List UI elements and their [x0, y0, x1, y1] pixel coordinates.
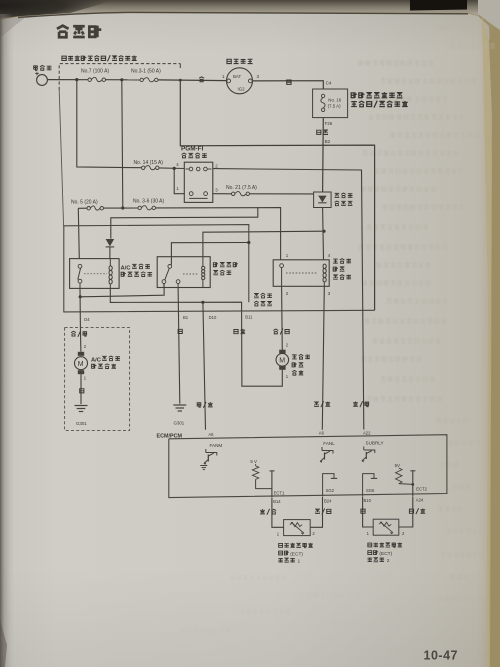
fuse No.21 (7.5A)	[232, 192, 250, 196]
pull-up resistor ECT2	[396, 468, 413, 484]
label: fan control relay	[213, 262, 238, 275]
label: radiator fan motor	[292, 354, 310, 375]
svg-text:ECM/PCM: ECM/PCM	[157, 433, 183, 439]
svg-text:G301: G301	[174, 421, 185, 426]
pin A6 (FANL)	[319, 430, 335, 446]
pull-up resistor ECT1	[252, 464, 272, 489]
page top edge line	[18, 12, 468, 17]
label: ignition switch	[227, 59, 253, 64]
svg-text:SG6: SG6	[366, 488, 375, 493]
wire: ignition IG2 to C4	[252, 81, 323, 89]
wire label: black (hei) sensor2	[361, 509, 365, 513]
svg-text:3: 3	[257, 74, 260, 79]
svg-text:IG2: IG2	[238, 87, 246, 92]
fuse No.3-1 (50A)	[140, 78, 158, 82]
ignition switch	[222, 68, 260, 94]
junction on battery bus (feeds No.14 fuse)	[75, 78, 78, 81]
wire: rail branch to diode feed (A/C relay coil)	[111, 208, 258, 239]
label: PGM-FI sub relay	[181, 146, 207, 159]
wire label: red/white (hong/bai)	[260, 509, 276, 515]
wire: fuse16 down to B2 (light green)	[322, 118, 325, 192]
wire label: green/black (lv/hei)	[315, 508, 331, 514]
svg-text:A6: A6	[208, 432, 214, 437]
svg-text:10-47: 10-47	[424, 649, 458, 663]
under-hood fuse/relay box (dashed outline)	[59, 64, 180, 90]
bleed-through text (back of page)	[359, 60, 480, 401]
wire label: pink (fenhong)	[234, 329, 245, 334]
fan control relay	[157, 257, 210, 288]
schematic (slight scan skew)	[34, 55, 447, 564]
wire: radiator relay pin3 down through FANL	[322, 286, 324, 430]
svg-text:F26: F26	[325, 121, 333, 126]
label: ECT sensor 2	[368, 542, 402, 564]
junction A/C motor feed	[79, 295, 82, 298]
junction coil bus	[201, 301, 204, 304]
svg-text:No.7 (100 A): No.7 (100 A)	[81, 68, 109, 74]
svg-text:(7.5 A): (7.5 A)	[328, 104, 341, 109]
wire: PGM-FI pin3 through fuse No.21 to relay board diode	[213, 193, 232, 195]
dash fuse/relay box No.16	[313, 89, 348, 118]
wire: A/C coil bottom to coil bus	[110, 288, 241, 311]
junction ECT2 node	[411, 483, 414, 486]
svg-text:B24: B24	[324, 499, 332, 504]
wire: battery branch down and across to right rail	[180, 80, 374, 310]
svg-text:B14: B14	[273, 499, 281, 504]
label: driver side dash fuse/relay box	[351, 92, 407, 107]
radiator fan relay	[273, 260, 329, 287]
wire: coil bus down through D10	[203, 302, 206, 430]
svg-text:5V: 5V	[395, 463, 400, 468]
pin A6 (FANM)	[208, 432, 222, 448]
wire label: red/yellow (hong/huang)	[353, 401, 368, 407]
wire label: orange (cheng)	[287, 80, 291, 84]
wire: B10 loop to sensor 2	[363, 497, 374, 527]
label: ECT sensor 1	[278, 543, 312, 565]
left edge shadow	[0, 14, 14, 667]
svg-text:No. 3-6 (30 A): No. 3-6 (30 A)	[133, 199, 164, 205]
pin SG6/B10	[364, 488, 376, 503]
ECT2 input node	[410, 471, 415, 496]
radiator fan motor	[276, 342, 289, 378]
svg-text:No. 16: No. 16	[328, 98, 341, 103]
A/C condenser fan motor housing (dashed)	[65, 327, 130, 430]
wire: diode box down to junction and radiator relay pin 4	[322, 208, 325, 260]
svg-text:B11: B11	[245, 314, 253, 319]
wire: junction right to fan control throw	[80, 284, 164, 297]
ECT1 input node	[270, 471, 275, 497]
pin ECT1/B14	[273, 491, 285, 504]
junction: fan control common tap	[247, 241, 250, 244]
label: battery	[34, 65, 52, 70]
fuse No.5 (20A)	[87, 206, 104, 210]
sensor ground SG6 hook	[363, 474, 378, 497]
svg-text:B2: B2	[325, 139, 331, 144]
wire label: yellow/red (huang/hong)	[197, 402, 213, 408]
fuse No.3-6 (30A)	[138, 206, 156, 210]
wire: sensor 1 to SG2	[310, 497, 322, 527]
A/C condenser fan motor	[75, 327, 88, 404]
label: radiator fan relay	[333, 259, 351, 280]
fuse No.14 (15A)	[142, 166, 160, 170]
junction after fuse No.3-1 (feeds C4 branch)	[179, 79, 182, 82]
junction on battery bus after No.7 (feeds No.5/No.3-6)	[120, 78, 123, 81]
wire: sensor 2 to ECT2	[399, 496, 413, 527]
svg-text:C4: C4	[326, 80, 332, 85]
label: A/C condenser fan relay	[121, 264, 153, 277]
label: A/C condenser fan motor	[91, 356, 120, 368]
svg-text:SG2: SG2	[326, 488, 335, 493]
svg-text:D10: D10	[209, 315, 217, 320]
wire: No.5 fuse branch down to A/C relay contact	[78, 208, 79, 258]
svg-text:ECT2: ECT2	[416, 487, 427, 492]
wire label: black/red (hei/hong)	[409, 508, 425, 514]
svg-text:BAT: BAT	[233, 74, 242, 79]
svg-text:A22: A22	[363, 430, 371, 435]
driver transistor FANM	[200, 449, 217, 470]
svg-text:A/C: A/C	[121, 265, 132, 271]
svg-text:B1: B1	[183, 315, 189, 320]
relay circuit board diode box	[314, 192, 332, 208]
wire label: blue/black (lan/hei)	[273, 329, 289, 335]
wire label: black (hei) B1	[178, 329, 182, 333]
svg-text:G301: G301	[76, 421, 87, 426]
wire label: blue/yellow (lan/huang)	[71, 331, 87, 337]
header: circuit diagram title	[57, 26, 101, 38]
label: relay circuit board (diode)	[335, 193, 353, 206]
wire label: green/red (lv/hong)	[314, 401, 330, 407]
black tab top right	[410, 0, 467, 11]
ground G301 (B1)	[173, 404, 186, 411]
A/C condenser fan relay	[70, 259, 120, 289]
ECT sensor 2 (thermistor)	[367, 519, 405, 536]
svg-text:ECT1: ECT1	[274, 491, 285, 496]
wire: junction down to PGM-FI pin 1	[174, 168, 184, 193]
wire: PGM-FI pin2 to SUBRLY rail	[213, 169, 364, 430]
svg-text:A/C: A/C	[91, 357, 102, 363]
wire: junction left to fan control relay coil	[203, 231, 324, 257]
wire label: light green (danlv)	[317, 130, 328, 134]
svg-text:SUBRLY: SUBRLY	[366, 440, 384, 445]
wire: fan control throw2 down through B1	[178, 288, 180, 404]
wire: A/C relay contact to D4 and junction	[79, 288, 81, 327]
svg-text:FANM: FANM	[210, 443, 223, 448]
wire: left edge feed (faint)	[59, 90, 63, 226]
diode (A/C relay coil)	[106, 239, 115, 259]
wire: fuse rail No.5 / No.3-6	[78, 207, 87, 209]
wire: fan control relay common	[171, 243, 248, 265]
wire: B11 pink to radiator fan motor pin1	[242, 312, 283, 386]
pin ECT2/A24	[416, 487, 428, 503]
wire: battery junction to fuse No.14 to PGM-FI relay pin 4	[77, 80, 142, 168]
sensor ground SG2 hook	[323, 474, 338, 497]
svg-text:M: M	[279, 358, 285, 365]
wire: radiator relay pin2 down to motor	[281, 286, 284, 353]
svg-text:PGM-FI: PGM-FI	[181, 146, 204, 153]
wire label: white (bai)	[199, 77, 204, 82]
svg-text:FANL: FANL	[323, 441, 335, 446]
wire: battery bus to ignition switch	[47, 79, 88, 81]
svg-text:1: 1	[298, 559, 301, 565]
pin labels PGM-FI	[176, 162, 218, 192]
svg-text:1: 1	[222, 74, 225, 79]
wire: battery junction 2 down to fuse rail	[122, 80, 123, 208]
wire label: black (hei)	[80, 389, 84, 393]
svg-text:No. 14 (15 A): No. 14 (15 A)	[134, 160, 164, 166]
fuse No.7 (100A)	[88, 77, 106, 81]
label: relay circuit board	[254, 293, 272, 306]
wire: ECT1 loop to sensor 1	[272, 498, 284, 528]
ground G301 (A/C motor)	[75, 405, 88, 412]
ECM/PCM box	[169, 435, 447, 498]
svg-text:No.3-1 (50 A): No.3-1 (50 A)	[131, 68, 161, 74]
svg-text:D4: D4	[84, 317, 90, 322]
svg-text:5 V: 5 V	[250, 459, 257, 464]
svg-text:A6: A6	[319, 430, 325, 435]
battery	[35, 72, 47, 86]
junction feeding PGM-FI pin 1	[173, 167, 176, 170]
svg-text:2: 2	[387, 558, 390, 564]
driver transistor SUBRLY	[362, 447, 375, 463]
svg-text:A24: A24	[416, 498, 424, 503]
right page edge	[489, 26, 500, 667]
svg-text:No. 21 (7.5 A): No. 21 (7.5 A)	[226, 185, 257, 191]
pin labels radiator relay	[286, 253, 331, 296]
pin A22 (SUBRLY)	[363, 430, 384, 445]
PGM-FI sub relay U1	[184, 162, 213, 202]
relay circuit board outline / bus	[64, 225, 375, 312]
junction radiator coil feed	[322, 230, 325, 233]
svg-text:B10: B10	[364, 498, 372, 503]
pin SG2/B24	[324, 488, 335, 503]
junction on fuse rail	[121, 206, 124, 209]
svg-text:(ECT): (ECT)	[379, 551, 392, 557]
svg-text:(ECT): (ECT)	[290, 551, 303, 557]
label: under-hood fuse/relay box	[62, 55, 137, 61]
ECT sensor 1 (thermistor)	[277, 520, 316, 537]
svg-text:M: M	[78, 361, 84, 368]
driver transistor FANL	[320, 447, 333, 463]
svg-text:No. 5 (20 A): No. 5 (20 A)	[71, 199, 98, 205]
